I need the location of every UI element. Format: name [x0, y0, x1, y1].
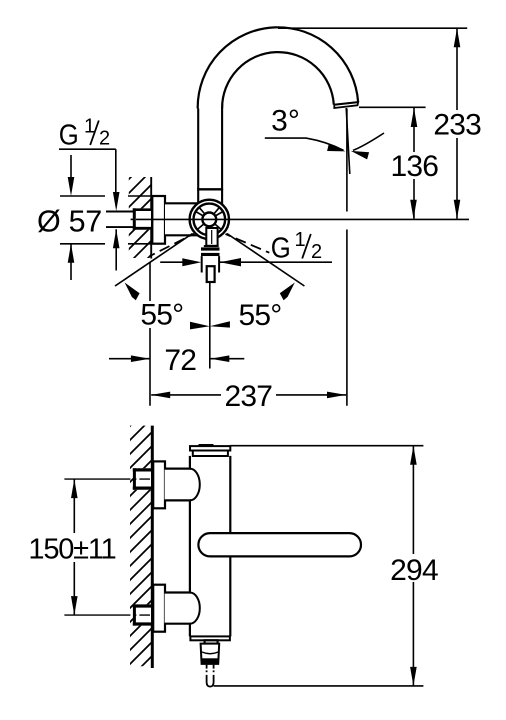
svg-text:G: G: [271, 233, 291, 265]
svg-text:136: 136: [390, 150, 438, 183]
svg-text:233: 233: [433, 108, 481, 141]
svg-text:Ø 57: Ø 57: [37, 205, 102, 239]
svg-text:72: 72: [164, 344, 196, 377]
svg-text:237: 237: [224, 380, 272, 413]
svg-text:55°: 55°: [239, 299, 282, 332]
svg-text:3°: 3°: [271, 105, 300, 138]
svg-text:2: 2: [311, 241, 322, 263]
svg-text:2: 2: [99, 128, 110, 150]
svg-text:294: 294: [390, 554, 438, 587]
svg-text:150±11: 150±11: [28, 534, 115, 566]
svg-text:G: G: [59, 119, 79, 151]
svg-text:1: 1: [295, 229, 306, 251]
svg-text:55°: 55°: [140, 299, 183, 332]
